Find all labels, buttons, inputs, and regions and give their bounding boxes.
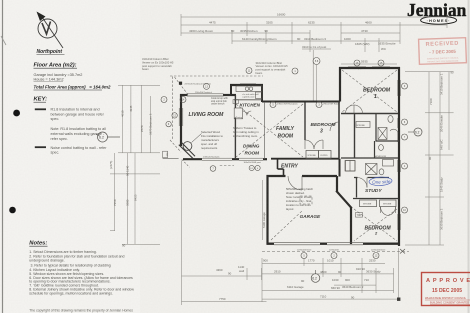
interior wall living/kitchen bbox=[234, 95, 236, 159]
scan noise texture bbox=[0, 0, 1, 1]
cook top note bbox=[211, 97, 228, 106]
column note left bbox=[142, 57, 174, 71]
bottom wall with openings bbox=[267, 242, 401, 244]
door tag 708 bbox=[356, 213, 363, 218]
page left edge line bbox=[2, 0, 4, 313]
bottom dimension lines bbox=[262, 248, 400, 302]
tag circle west bbox=[166, 121, 171, 126]
key tag 6.2 bbox=[96, 132, 120, 142]
ceiling dash X bedroom2 bbox=[354, 209, 397, 241]
living bottom wall window bbox=[202, 158, 263, 160]
entry walls bbox=[271, 159, 339, 176]
short dash outside living bbox=[220, 165, 234, 167]
garage hatch note bbox=[286, 187, 314, 211]
bedroom3 right wall / corridor bbox=[338, 102, 340, 159]
wood fire note bbox=[201, 130, 223, 150]
wardrobe row bed2 bbox=[353, 198, 398, 200]
jennian logo bbox=[407, 0, 467, 24]
key swatch noise control bbox=[35, 146, 46, 148]
bed2 double doors bbox=[380, 207, 395, 216]
kitchen bench front edge bbox=[234, 99, 262, 101]
floor area heading bbox=[34, 63, 111, 91]
notes list bbox=[29, 250, 134, 296]
wing interior: bedroom1 bottom wall bbox=[341, 113, 398, 115]
living room exterior walls bbox=[180, 94, 267, 159]
key heading bbox=[34, 97, 48, 103]
tag 6.2 right bbox=[408, 128, 422, 136]
approved stamp bbox=[422, 273, 470, 306]
bathroom top wall bbox=[341, 157, 398, 159]
x scribble mark bbox=[400, 249, 405, 254]
study left wall bbox=[356, 178, 358, 198]
study top wall with door bbox=[354, 177, 389, 179]
top dimension lines bbox=[181, 14, 447, 64]
bottom-left dimension group bbox=[182, 161, 267, 306]
northpoint symbol bbox=[38, 14, 63, 48]
entry closets bbox=[306, 151, 331, 159]
notes heading bbox=[29, 241, 47, 247]
received stamp bbox=[419, 38, 467, 65]
right wall window gaps bbox=[398, 80, 401, 230]
left dimension lines bbox=[110, 85, 160, 244]
square terminator bbox=[397, 298, 400, 301]
garage exterior walls bbox=[267, 175, 352, 245]
trusses note bbox=[233, 126, 259, 138]
tag 6.2 bottom bbox=[311, 270, 320, 282]
window tag living south bbox=[210, 166, 216, 172]
punch hole bottom bbox=[9, 207, 16, 214]
blue pen note one side bbox=[369, 177, 392, 187]
front door arc bbox=[288, 176, 302, 190]
window tag west wall bbox=[172, 113, 177, 118]
punch hole top bbox=[13, 110, 20, 117]
mid band top wall with lintels bbox=[262, 101, 340, 103]
bedroom3 double doors bbox=[305, 140, 323, 149]
top wall window gaps bbox=[187, 67, 390, 94]
sink note bbox=[242, 93, 259, 99]
circled window/door tags bbox=[161, 58, 408, 259]
dining/family divider bbox=[264, 102, 266, 159]
bedroom3 left wall bbox=[304, 103, 306, 141]
living window gap on left wall bbox=[179, 108, 183, 126]
bedroom3 east door arc bbox=[330, 122, 339, 131]
study door arc bbox=[357, 178, 367, 188]
linen box bbox=[345, 161, 355, 172]
hall west wall bbox=[339, 159, 341, 177]
ceiling dash X bedroom1 bbox=[342, 70, 397, 112]
veranda dashed outline bbox=[170, 76, 263, 152]
garage ceiling hatch dashes bbox=[271, 196, 312, 240]
key swatch insulation internal bbox=[35, 108, 46, 110]
page right edge shade bbox=[468, 0, 470, 313]
northpoint label bbox=[37, 49, 65, 55]
kitchen exterior walls bbox=[230, 84, 263, 102]
ceiling dash X family room bbox=[236, 104, 303, 157]
ensuite dividers bbox=[375, 114, 377, 142]
right dimension lines bbox=[405, 72, 454, 245]
fireplace corner bbox=[163, 134, 202, 159]
post centerline leaders bbox=[312, 50, 314, 101]
ensuite fixtures bbox=[356, 116, 398, 151]
garage side dim bbox=[262, 180, 264, 240]
lintel dashed row under bottom wall bbox=[262, 251, 409, 253]
hall wall bbox=[354, 114, 356, 159]
kitchen fixtures bbox=[234, 86, 262, 119]
bathroom row fixtures bbox=[346, 160, 394, 175]
kitchen door tag box bbox=[233, 100, 238, 104]
entry tags bbox=[249, 165, 254, 170]
verandah post bbox=[179, 82, 182, 85]
bedroom1 wing exterior bbox=[339, 67, 400, 246]
door tag box 815 bbox=[163, 151, 168, 157]
bedroom1 door arcs bbox=[346, 105, 363, 114]
column note mid bbox=[256, 61, 289, 75]
